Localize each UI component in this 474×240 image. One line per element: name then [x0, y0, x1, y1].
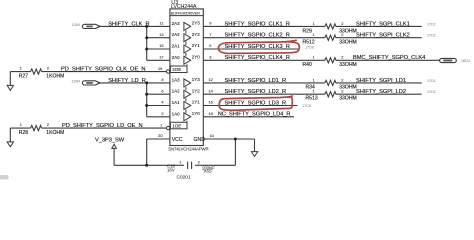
pin numbers 11,13,15,17 (2A inputs) [159, 21, 163, 60]
svg-text:1A2: 1A2 [172, 89, 181, 94]
svg-text:1A0: 1A0 [172, 111, 181, 116]
1OE enable frame [160, 122, 187, 130]
wire net NC_SHIFTY_SGPIO_LD4_R (pin 18 output) [203, 111, 294, 118]
buffer gate D (row CLK4) [184, 56, 191, 64]
svg-text:1Y0: 1Y0 [192, 111, 201, 116]
svg-text:2A3: 2A3 [172, 21, 181, 26]
svg-text:2: 2 [341, 77, 343, 82]
wire net SHIFTY_CLK_R [71, 21, 169, 28]
svg-text:C0201: C0201 [177, 174, 191, 180]
svg-text:7: 7 [209, 32, 211, 37]
wire net SHIFTY_SGPI_CLK2 [336, 33, 436, 39]
buffer gate F (row LD2) [184, 90, 191, 98]
svg-text:SHIFTY_SGPI_LD1: SHIFTY_SGPI_LD1 [356, 78, 406, 84]
pin numbers 8,6,4,2 (1A inputs) [161, 77, 164, 116]
svg-text:LVCH244A: LVCH244A [171, 4, 197, 10]
wire net SHIFTY_SGPIO_LD2_R (pin 14 output) [203, 88, 324, 95]
svg-text:2: 2 [341, 32, 343, 37]
buffer gate E (row LD1) [184, 79, 191, 87]
svg-text:2OE: 2OE [172, 67, 181, 72]
wire net SHIFTY_SGPIO_CLK3_R (pin 5 output) [203, 43, 314, 50]
capacitor C18 [167, 159, 215, 180]
svg-text:1OE: 1OE [172, 123, 181, 128]
svg-text:1: 1 [313, 55, 315, 60]
svg-text:VCC: VCC [172, 137, 183, 143]
svg-text:BMC_SHIFTY_SGPO_CLK4: BMC_SHIFTY_SGPO_CLK4 [353, 55, 425, 61]
svg-text:R27: R27 [19, 73, 29, 79]
svg-text:33OHM: 33OHM [339, 62, 357, 68]
svg-text:1: 1 [20, 66, 22, 71]
svg-text:SHIFTY_SGPIO_LD2_R: SHIFTY_SGPIO_LD2_R [225, 89, 287, 95]
gate link lines lower [186, 87, 187, 122]
svg-text:X6S: X6S [204, 168, 212, 173]
svg-text:5: 5 [209, 43, 211, 48]
buffer gate H (row LD4) [184, 113, 191, 121]
wire net SHIFTY_SGPI_LD1 [336, 78, 436, 84]
ground (R28) [7, 128, 13, 147]
svg-text:13: 13 [159, 32, 163, 37]
wire CLK input bus [145, 25, 170, 60]
svg-text:2A1: 2A1 [172, 44, 181, 49]
wire net BMC_SHIFTY_SGPO_CLK4 [336, 55, 440, 61]
svg-text:SHIFTY_SGPIO_CLK2_R: SHIFTY_SGPIO_CLK2_R [225, 33, 290, 39]
resistor R28 [10, 122, 64, 136]
svg-text:1Y2: 1Y2 [192, 88, 201, 93]
svg-text:1: 1 [313, 77, 315, 82]
wire net SHIFTY_SGPIO_LD1_R (pin 12 output) [203, 77, 324, 84]
svg-text:2: 2 [47, 122, 49, 127]
wire net SHIFTY_SGPIO_LD3_R (pin 16 output) [203, 100, 311, 108]
svg-text:BUFFER/DRIVER: BUFFER/DRIVER [171, 10, 200, 15]
svg-text:3: 3 [209, 55, 211, 60]
svg-text:8: 8 [161, 77, 163, 82]
svg-text:16V: 16V [167, 168, 175, 173]
svg-text:SHIFTY_LD_R: SHIFTY_LD_R [108, 78, 146, 84]
op-amp U1 : IC U3 SN74LVCH244A buffer/driver body [168, 0, 208, 152]
svg-text:1: 1 [313, 89, 315, 94]
svg-text:18D4: 18D4 [461, 58, 471, 63]
svg-text:2A0: 2A0 [172, 55, 181, 60]
svg-text:12: 12 [209, 77, 213, 82]
svg-text:1: 1 [179, 159, 181, 164]
svg-text:11: 11 [160, 21, 164, 26]
svg-text:1A3: 1A3 [172, 77, 181, 82]
svg-text:19: 19 [158, 66, 162, 71]
svg-text:33OHM: 33OHM [339, 96, 357, 102]
wire GND net (pin 10) [203, 133, 254, 165]
svg-text:PD_SHIFTY_SGPIO_LD_OE_N: PD_SHIFTY_SGPIO_LD_OE_N [62, 123, 143, 129]
off-page connector (BMC_SHIFTY_SGPO_CLK4) [440, 58, 471, 63]
svg-text:2A2: 2A2 [172, 32, 181, 37]
svg-text:17D8: 17D8 [305, 44, 314, 49]
buffer gate B (row CLK2) [184, 34, 191, 42]
svg-text:2: 2 [341, 55, 343, 60]
resistor R34 [306, 77, 357, 90]
svg-text:12B4: 12B4 [71, 22, 81, 27]
svg-text:12B4: 12B4 [71, 78, 81, 83]
svg-text:1: 1 [313, 32, 315, 37]
wire net SHIFTY_SGPI_LD2 [336, 89, 436, 95]
svg-text:R513: R513 [306, 96, 318, 102]
svg-text:15: 15 [159, 43, 163, 48]
svg-text:SHIFTY_SGPIO_LD3_R: SHIFTY_SGPIO_LD3_R [225, 100, 287, 106]
svg-text:17C8: 17C8 [302, 103, 311, 108]
red annotation circle around SHIFTY_SGPIO_CLK3_R [218, 40, 299, 53]
svg-text:V_3P3_SW: V_3P3_SW [95, 138, 125, 144]
svg-text:2: 2 [341, 21, 343, 26]
svg-text:17: 17 [159, 55, 163, 60]
wire net SHIFTY_SGPIO_CLK4_R (pin 3 output) [203, 55, 324, 62]
ground (decoupling) [251, 139, 257, 157]
svg-text:SHIFTY_SGPI_LD2: SHIFTY_SGPI_LD2 [356, 89, 406, 95]
svg-text:1: 1 [160, 122, 162, 127]
wire VCC feed (pin 20) [147, 133, 206, 165]
wire net PD_SHIFTY_SGPIO_CLK_OE_N [42, 66, 167, 72]
2OE enable frame [158, 66, 187, 74]
svg-text:6: 6 [161, 88, 163, 93]
wire net SHIFTY_SGPI_CLK1 [336, 21, 436, 27]
svg-text:SHIFTY_CLK_R: SHIFTY_CLK_R [108, 21, 149, 27]
svg-text:9: 9 [209, 21, 211, 26]
svg-text:16: 16 [209, 100, 213, 105]
pin labels 2A3..2A0 / 2Y3..2Y0 and buffer triangles [172, 21, 201, 60]
svg-text:R29: R29 [303, 28, 313, 34]
buffer gate A (row CLK1) [184, 22, 191, 30]
svg-text:NC_SHIFTY_SGPIO_LD4_R: NC_SHIFTY_SGPIO_LD4_R [218, 112, 291, 118]
svg-text:2: 2 [47, 66, 49, 71]
svg-text:SHIFTY_SGPIO_CLK1_R: SHIFTY_SGPIO_CLK1_R [225, 21, 290, 27]
ground (R27) [7, 72, 13, 91]
gate link lines upper [186, 30, 187, 66]
svg-text:2Y2: 2Y2 [192, 32, 201, 37]
svg-text:2: 2 [198, 159, 200, 164]
svg-text:2: 2 [341, 89, 343, 94]
svg-text:17D1: 17D1 [427, 33, 436, 38]
svg-text:SHIFTY_SGPI_CLK1: SHIFTY_SGPI_CLK1 [356, 21, 410, 27]
svg-text:R28: R28 [19, 130, 29, 136]
resistor R27 [10, 66, 64, 80]
wire net SHIFTY_SGPIO_CLK2_R (pin 7 output) [203, 32, 324, 39]
wire bottom rail [114, 164, 235, 167]
resistor R29 [303, 21, 357, 35]
svg-text:1Y3: 1Y3 [192, 77, 201, 82]
svg-text:SHIFTY_SGPIO_CLK4_R: SHIFTY_SGPIO_CLK4_R [225, 55, 290, 61]
svg-text:SHIFTY_SGPIO_LD1_R: SHIFTY_SGPIO_LD1_R [225, 78, 287, 84]
svg-text:2: 2 [161, 111, 163, 116]
svg-text:18: 18 [209, 111, 213, 116]
svg-text:2Y0: 2Y0 [192, 55, 201, 60]
svg-text:1: 1 [20, 122, 22, 127]
svg-text:17D1: 17D1 [427, 89, 436, 94]
svg-text:1KOHM: 1KOHM [46, 130, 64, 136]
wire net SHIFTY_LD_R [71, 78, 169, 85]
red annotation circle around SHIFTY_SGPIO_LD3_R [219, 96, 292, 110]
svg-text:2Y3: 2Y3 [192, 21, 201, 26]
svg-text:33OHM: 33OHM [339, 40, 357, 46]
resistor R513 [306, 89, 357, 102]
svg-text:17D1: 17D1 [427, 78, 436, 83]
svg-text:SHIFTY_SGPIO_CLK3_R: SHIFTY_SGPIO_CLK3_R [225, 44, 290, 50]
buffer gate C (row CLK3) [184, 45, 191, 53]
wire LD input bus [145, 81, 170, 116]
scan artifact bottom-left [0, 175, 9, 180]
svg-text:1KOHM: 1KOHM [46, 73, 64, 79]
pin labels 1A3..1A0 / 1Y3..1Y0 [172, 77, 201, 116]
resistor R40 [303, 55, 357, 68]
wire net PD_SHIFTY_SGPIO_LD_OE_N [42, 123, 167, 129]
svg-text:1: 1 [313, 21, 315, 26]
svg-text:R40: R40 [303, 62, 313, 68]
resistor R512 [303, 32, 357, 46]
svg-text:2Y1: 2Y1 [192, 43, 201, 48]
power symbol V_3P3_SW [95, 138, 125, 166]
svg-text:SHIFTY_SGPI_CLK2: SHIFTY_SGPI_CLK2 [356, 33, 410, 39]
svg-text:GND: GND [194, 137, 206, 143]
wire net SHIFTY_SGPIO_CLK1_R (pin 9 output) [203, 21, 324, 28]
svg-text:SN74LVCH244APWR: SN74LVCH244APWR [168, 147, 208, 152]
svg-text:PD_SHIFTY_SGPIO_CLK_OE_N: PD_SHIFTY_SGPIO_CLK_OE_N [61, 66, 145, 72]
svg-text:1A1: 1A1 [172, 100, 181, 105]
buffer gate G (row LD3) [184, 102, 191, 110]
svg-text:17D1: 17D1 [427, 21, 436, 26]
svg-text:1Y1: 1Y1 [192, 100, 201, 105]
